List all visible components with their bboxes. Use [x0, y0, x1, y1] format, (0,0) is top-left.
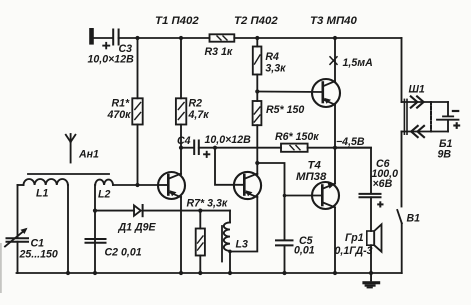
svg-text:Ш1: Ш1 — [409, 84, 425, 96]
transistor T2 — [234, 172, 261, 199]
resistor R1 — [132, 98, 142, 124]
svg-text:R3 1к: R3 1к — [205, 46, 233, 58]
svg-text:R5* 150: R5* 150 — [266, 104, 304, 116]
wire: L2 to T1 base — [113, 184, 158, 186]
capacitor C1 (variable) — [5, 228, 28, 247]
wire: R4 bottom to T3 base node — [256, 75, 258, 102]
capacitor C2 — [86, 239, 106, 243]
node: rail dot T1 emitter — [179, 271, 183, 275]
svg-text:С2 0,01: С2 0,01 — [105, 247, 142, 259]
svg-text:0,1ГД-3: 0,1ГД-3 — [335, 245, 373, 257]
wire: R5 bottom to T2 collector — [256, 125, 258, 174]
scan artifact left edge — [0, 243, 2, 293]
svg-text:С4: С4 — [177, 135, 191, 147]
label C3 plus — [102, 42, 110, 49]
marker: 1.5mA measuring cross — [330, 57, 337, 65]
node: rail dot L2/C2 — [93, 271, 97, 275]
wire: R2 top lead — [180, 38, 182, 98]
svg-text:Т4: Т4 — [308, 160, 322, 172]
transistor T4 — [312, 182, 339, 209]
node: R7 junction — [198, 209, 202, 213]
node: T2 base drop junction — [213, 146, 217, 150]
wire: C6 to speaker — [370, 197, 372, 231]
resistor R6 — [281, 144, 308, 152]
svg-text:4,7к: 4,7к — [188, 109, 210, 121]
svg-text:R6* 150к: R6* 150к — [275, 131, 319, 143]
terminal: thick input bar top-left — [89, 28, 94, 45]
svg-text:10,0×12В: 10,0×12В — [205, 134, 252, 146]
wire: C4 left lead — [181, 147, 194, 149]
label C4 plus — [203, 151, 210, 158]
node: -4.5V output node — [333, 146, 337, 150]
transistor T3 — [312, 79, 340, 107]
svg-text:R7* 3,3к: R7* 3,3к — [187, 198, 228, 210]
diode D1 — [134, 205, 143, 216]
wire: R6 right to -4.5V node — [308, 147, 371, 149]
wire: T3 base lead — [257, 91, 323, 94]
transistor T1 — [158, 172, 185, 199]
node: rail junction T3 collector — [333, 36, 337, 40]
wire: R4 top lead — [256, 38, 258, 47]
resistor R5 — [253, 101, 262, 125]
svg-text:0,01: 0,01 — [294, 245, 315, 257]
svg-text:1,5мА: 1,5мА — [343, 57, 373, 69]
wire: T4 collector down to rail — [334, 207, 336, 273]
wire: L1 left / C1 column — [17, 185, 19, 238]
wire: C1 bottom lead — [17, 242, 19, 273]
resistor R7 — [196, 211, 205, 273]
wire: coupling to C5 / T4 base — [257, 163, 284, 240]
ground rail (bottom) — [17, 272, 402, 274]
resistor R2 — [176, 98, 186, 124]
node: T4 base junction — [283, 194, 287, 198]
wire: top rail right of R3 — [234, 37, 401, 39]
speaker Gr1 — [367, 224, 382, 251]
wire: R1 bottom lead — [137, 125, 139, 186]
svg-text:МП38: МП38 — [296, 171, 327, 183]
node: rail junction R2 — [179, 36, 183, 40]
wire: C5 bottom lead — [284, 245, 286, 273]
svg-text:В1: В1 — [407, 213, 421, 225]
svg-text:L1: L1 — [36, 188, 48, 200]
svg-text:Ан1: Ан1 — [78, 149, 99, 161]
svg-text:×6В: ×6В — [373, 178, 393, 190]
wire: T3 emitter down to -4.5V node — [334, 105, 336, 148]
svg-text:Т2 П402: Т2 П402 — [234, 15, 278, 27]
wire: T1 emitter down to ground rail — [180, 197, 182, 273]
node: rail dot C5 — [282, 271, 286, 275]
wire: T4 base lead — [285, 195, 323, 197]
node: rail dot L3 — [228, 271, 232, 275]
wire: diode to R7 and L3 — [143, 210, 230, 212]
wire: drop to T2 base — [215, 148, 244, 185]
capacitor C6 — [360, 194, 381, 197]
node: rail dot R7 — [198, 271, 202, 275]
label battery plus — [453, 122, 460, 129]
node: rail dot L1 — [66, 271, 70, 275]
capacitor C4 — [194, 141, 199, 155]
svg-text:R1*: R1* — [112, 98, 131, 110]
wire: T3 collector to rail — [334, 38, 336, 81]
label C6 plus — [377, 201, 383, 207]
node: rail dot T4 collector — [333, 271, 337, 275]
svg-text:L2: L2 — [98, 189, 110, 201]
svg-text:25...150: 25...150 — [19, 249, 58, 261]
wire: R1 top lead — [137, 38, 139, 98]
svg-text:10,0×12В: 10,0×12В — [88, 54, 135, 66]
wire: C4 right to R6 — [199, 147, 281, 149]
svg-text:Д1 Д9Е: Д1 Д9Е — [118, 222, 157, 234]
label battery minus — [452, 110, 460, 112]
node: T2 collector / coupling junction — [255, 161, 259, 165]
wire: T2 emitter to L3 bottom — [230, 197, 257, 252]
wire: tap to diode — [95, 210, 134, 212]
connector Sh1 — [402, 96, 449, 137]
inductor L1 — [18, 179, 68, 185]
node: C4 tap junction — [179, 146, 183, 150]
ground symbol — [362, 273, 380, 288]
svg-text:Т3 МП40: Т3 МП40 — [310, 15, 357, 27]
wire: -4.5V node down to T4 emitter — [334, 148, 336, 184]
svg-text:R4: R4 — [265, 51, 279, 63]
wire: L1 right lead — [67, 185, 69, 273]
inductor L2 — [95, 180, 113, 185]
wire: R2 bottom lead to T1 collector — [180, 125, 182, 175]
ferrite core rod of magnetic antenna — [28, 173, 109, 175]
node: rail dot speaker/ground — [369, 271, 373, 275]
wire: L2 left column — [94, 185, 96, 273]
node: T3 base node — [255, 89, 259, 93]
wire: top supply rail left segment — [93, 37, 113, 39]
wire: right side vertical from rail to connector — [401, 38, 403, 102]
resistor R3 — [210, 34, 235, 41]
node: rail junction R1 — [135, 36, 139, 40]
wire: top supply rail main segment — [119, 37, 210, 39]
svg-text:3,3к: 3,3к — [265, 63, 286, 75]
switch V1 — [397, 132, 402, 274]
svg-text:Т1 П402: Т1 П402 — [155, 15, 199, 27]
svg-text:L3: L3 — [236, 239, 248, 251]
svg-text:R2: R2 — [189, 98, 203, 110]
wire: -4.5V node to C6 column — [335, 148, 371, 194]
node: detector tap on L2 — [93, 209, 97, 213]
capacitor C3 — [113, 30, 118, 45]
svg-text:9В: 9В — [438, 149, 452, 161]
svg-text:Гр1: Гр1 — [345, 232, 364, 244]
battery B1 — [437, 102, 459, 132]
inductor L3 — [222, 211, 230, 273]
antenna An1 — [66, 134, 76, 163]
capacitor C5 — [276, 240, 293, 245]
node: L3 bottom junction — [228, 250, 232, 254]
node: T1 base junction — [135, 183, 139, 187]
wire: speaker to ground rail — [370, 245, 372, 273]
resistor R4 — [253, 47, 262, 75]
svg-text:−4,5В: −4,5В — [336, 136, 365, 148]
node: rail junction R4 — [255, 36, 259, 40]
svg-text:470к: 470к — [107, 109, 132, 121]
